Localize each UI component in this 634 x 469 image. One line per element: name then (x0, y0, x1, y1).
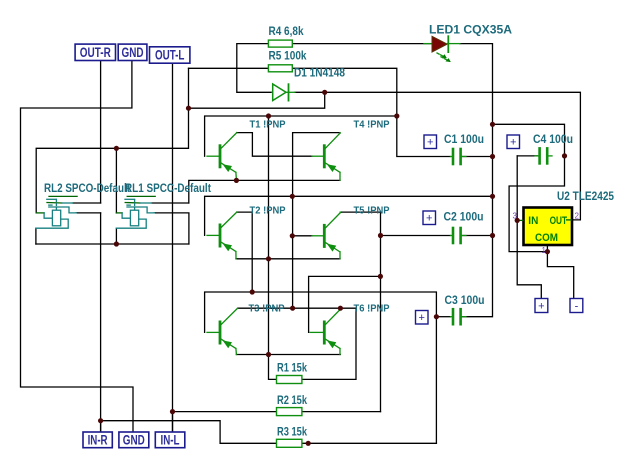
wire C4 right return to COM (509, 156, 564, 252)
node GND top terminal (118, 44, 147, 60)
wire C4 feed from column (493, 124, 565, 156)
wire RL2 NO contact exit (76, 212, 100, 214)
wire T1/T4 emitter rail with riser to RL1 arm (189, 180, 340, 203)
wire R5 left column down to coil feed line (36, 68, 188, 213)
transistor T4 (312, 133, 340, 181)
node T2 rail end (490, 194, 495, 199)
wire T6 base riser line to T5 collector column (309, 276, 381, 332)
node C2 right (490, 233, 495, 238)
wire C3 left lead (436, 316, 450, 318)
svg-text:T1 !PNP: T1 !PNP (250, 118, 286, 130)
wire RL2 NO contact down to IN-R junction (100, 213, 102, 432)
svg-text:GND: GND (123, 433, 145, 448)
wire RL2 arm to OUT-R column (73, 202, 101, 204)
node T2 collector step / T3 base rail (250, 289, 255, 294)
svg-text:LED1 CQX35A: LED1 CQX35A (429, 22, 512, 36)
wire relay coil bottom rail (36, 243, 189, 245)
node IN-R junction (98, 418, 103, 423)
C1 plus mark (424, 135, 437, 149)
capacitor C2 (451, 228, 467, 243)
U2 minus terminal (570, 299, 583, 313)
node R5-D1 junction (186, 106, 191, 111)
wire IN-R rail to R3 left (101, 421, 277, 444)
svg-text:OUT-R: OUT-R (80, 45, 111, 60)
capacitor C3 (451, 309, 467, 324)
relay RL1 contacts (125, 196, 155, 213)
wire T2 collector step down to T3 base rail (237, 212, 252, 292)
wire IN-R box stub (100, 421, 102, 432)
wire C2 left lead from T5 collector column (381, 235, 451, 237)
transistor T2 (207, 212, 237, 259)
wire T1 rail (205, 116, 397, 156)
resistor R5 body (268, 65, 292, 72)
U2 pin 2 lead OUT (566, 219, 572, 221)
node T5 collector / C2 left (378, 233, 383, 238)
wire T3/T6 emitter rail (236, 354, 340, 356)
node T1 rail / center column (266, 113, 271, 118)
wire C1 left drop (397, 116, 451, 157)
wire T2 rail (205, 196, 493, 235)
resistor R1 body (277, 376, 302, 384)
svg-text:C2 100u: C2 100u (444, 212, 484, 224)
TERMINAL BOXES (75, 44, 190, 448)
node relay coil rail (114, 241, 119, 246)
wire RL1 NO contact exit down to coil rail (154, 213, 189, 244)
POLARITY MARK BOXES (416, 135, 583, 324)
wire RL1 arm to emitter-rail riser (152, 202, 189, 204)
wire OUT-L down to IN-L junction (172, 63, 174, 432)
LED emission arrows (437, 53, 446, 58)
C2 plus mark (423, 211, 436, 225)
node GND bottom terminal (119, 432, 149, 448)
wire T5 base line (292, 235, 312, 237)
wire T3 collector line to R1 right (238, 308, 356, 379)
node T4 collector / T5 base (290, 233, 295, 238)
transistor T1 (207, 133, 237, 181)
wire LED cathode to right column (460, 44, 493, 317)
wire R4 right lead to LED anode (292, 43, 431, 45)
node RL1 coil feed (114, 146, 119, 151)
wire T2/T5 emitter rail (236, 258, 340, 260)
node C4 right (562, 153, 567, 158)
svg-text:COM: COM (535, 232, 558, 244)
node LED column / C4 feed (490, 122, 495, 127)
wire R5 row left lead (189, 67, 269, 69)
GREEN component leads and symbols (268, 36, 552, 447)
op-amp substitute: regulator U2 TLE2425 body (513, 208, 580, 256)
svg-text:+: + (538, 300, 544, 312)
svg-text:C4 100u: C4 100u (533, 134, 573, 146)
C3 plus mark (416, 311, 429, 325)
wire U2 OUT pin (566, 219, 573, 221)
wire C4 left lead (517, 155, 537, 157)
wire RL1 coil hook drop (115, 228, 117, 244)
wire D1 cathode line to U2 OUT column (295, 92, 580, 220)
U2 plus terminal (535, 299, 548, 313)
wire R5 right lead down to T1 rail (292, 68, 397, 116)
svg-text:+: + (510, 137, 516, 149)
wire RL1 coil feed drop (115, 148, 117, 213)
node T1 rail / C1 left (394, 113, 399, 118)
node T4 collector column end (290, 306, 295, 311)
svg-text:R5 100k: R5 100k (269, 51, 308, 63)
LED LED1 (424, 36, 460, 62)
svg-text:GND: GND (122, 45, 144, 60)
node T3 emitter rail / R1 left (266, 352, 271, 357)
node T2 emitter rail / column (266, 256, 271, 261)
svg-text:R3 15k: R3 15k (277, 426, 307, 438)
wire OUT-R stub down to RL2 common arm (100, 61, 102, 203)
wire C4 left column to IN pin and + terminal (517, 156, 541, 298)
node T6 collector (338, 306, 343, 311)
svg-text:+: + (427, 137, 433, 149)
svg-text:-: - (575, 300, 579, 312)
wire R2 line from IN-L junction (173, 411, 277, 413)
node IN-L junction (170, 409, 175, 414)
svg-text:R2 15k: R2 15k (277, 395, 307, 407)
relay RL1 coil (116, 210, 146, 228)
svg-text:IN: IN (528, 215, 538, 227)
svg-text:D1 1N4148: D1 1N4148 (294, 67, 346, 79)
node IN-L terminal (155, 432, 185, 448)
transistor T3 (207, 308, 238, 354)
wire T3 base rail to C3 left column (205, 292, 437, 443)
transistor T6 (310, 308, 340, 354)
node R3 lead dot (306, 441, 311, 446)
svg-text:T3 !PNP: T3 !PNP (249, 302, 285, 314)
svg-text:C1 100u: C1 100u (444, 134, 484, 146)
relay RL2 contacts (47, 196, 77, 213)
relay RL2 coil (36, 210, 68, 228)
node D1 cathode junction (322, 90, 327, 95)
svg-text:2: 2 (575, 212, 580, 221)
diode D1 (272, 84, 295, 101)
wire IN-L box stub (172, 412, 174, 432)
node C3 left (434, 314, 439, 319)
wire T4 collector line and long drop (293, 133, 340, 309)
RELAYS (36, 196, 155, 228)
node U2 IN pin (515, 218, 520, 223)
svg-text:T4 !PNP: T4 !PNP (354, 118, 390, 130)
C4 plus mark (507, 135, 520, 149)
svg-text:T2 !PNP: T2 !PNP (250, 204, 286, 216)
svg-text:RL1 SPCC-Default: RL1 SPCC-Default (125, 181, 211, 195)
transistor T5 (312, 212, 340, 259)
wire GND(top) down, left and down left edge to GND(bottom) (21, 61, 134, 432)
resistor R3 body (277, 439, 302, 447)
svg-text:RL2 SPCO-Default: RL2 SPCO-Default (44, 181, 130, 195)
capacitor C1 (451, 149, 467, 164)
svg-text:C3 100u: C3 100u (445, 295, 485, 307)
svg-text:IN-L: IN-L (161, 433, 180, 448)
node T4 collector / T2 rail (290, 194, 295, 199)
wire T5 collector step and long drop to R2 line (340, 212, 380, 412)
wire node R5/D1 to coil line (189, 92, 325, 108)
node T1 emitter rail (234, 178, 239, 183)
capacitor C4 (535, 148, 552, 163)
wire COM to minus terminal (547, 252, 573, 299)
node OUT-R terminal (75, 44, 115, 60)
resistor R4 body (268, 40, 292, 47)
svg-text:OUT: OUT (550, 215, 568, 227)
wire long center column T1-rail to R1 left (269, 116, 277, 379)
node C1 right (490, 154, 495, 159)
svg-text:IN-R: IN-R (88, 433, 108, 448)
wire R4 left lead and column to D1 (237, 44, 272, 93)
svg-text:T5 !PNP: T5 !PNP (354, 204, 390, 216)
svg-text:R4 6,8k: R4 6,8k (269, 26, 305, 38)
wire COM pin (546, 245, 548, 251)
svg-text:+: + (426, 213, 432, 225)
wire R3 right lead to C3 column (302, 442, 437, 444)
wire C1 right lead (462, 156, 493, 158)
node OUT-L terminal (150, 47, 190, 63)
node IN-R terminal (83, 432, 112, 448)
TRANSISTORS (207, 133, 340, 355)
resistor R2 body (277, 408, 302, 416)
svg-text:R1 15k: R1 15k (277, 363, 307, 375)
wire C2 right lead (462, 235, 493, 237)
wire R2 right lead (302, 411, 381, 413)
wire RL2 coil hook drop (35, 228, 37, 244)
wire T1 collector step to T4 base (237, 133, 312, 157)
U2 pin 3 lead IN (517, 219, 523, 221)
svg-text:T6 !PNP: T6 !PNP (354, 302, 390, 314)
svg-text:+: + (418, 312, 424, 324)
node T6 base line / T5 column (378, 274, 383, 279)
node U2 COM (545, 249, 550, 254)
svg-text:OUT-L: OUT-L (155, 48, 185, 63)
svg-text:U2 TLE2425: U2 TLE2425 (557, 191, 615, 203)
